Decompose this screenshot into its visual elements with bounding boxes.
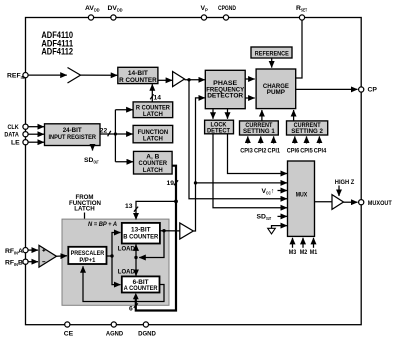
svg-text:RSET: RSET [296,5,307,13]
wire CPI1 [273,136,275,143]
wire current setting 2 to charge pump [293,110,295,121]
RF buffer minus mark [42,261,45,263]
pin REFIN [7,73,28,81]
svg-text:SETTING 1: SETTING 1 [243,128,275,135]
wire lock detect to MUX input 1 [228,134,288,174]
wire RFINA to RF buffer [28,249,38,251]
pin AGND [106,322,123,337]
svg-text:LOAD: LOAD [118,268,135,275]
svg-text:CP: CP [368,87,378,94]
svg-text:REFIN: REFIN [7,73,25,81]
wire RF buffer to prescaler [57,255,68,257]
svg-text:DGND: DGND [138,330,156,337]
wire current setting 1 to charge pump [261,110,263,121]
junction R output tap [187,78,190,81]
svg-text:M1: M1 [310,249,318,256]
N output buffer [180,223,194,239]
wire CLK to register [28,126,44,128]
svg-text:DVDD: DVDD [108,5,123,13]
wire to A,B counter latch [115,161,133,163]
block 14-BIT R COUNTER [118,67,158,84]
wire PFD to lock detect right [227,109,229,119]
N divider gray box [62,219,169,305]
wire PFD to charge pump down [245,97,255,99]
wire VCC to MUX [278,190,288,192]
wire CPI5 [306,136,308,143]
junction 19 bus [174,200,178,204]
wire to B counter [112,233,121,257]
svg-text:CPI6: CPI6 [287,148,300,155]
wire MUX to output buffer [315,201,333,203]
wire prescaler out junction [107,255,113,257]
MUXOUT buffer [332,195,344,210]
svg-text:DETECTOR: DETECTOR [207,92,243,99]
junction B counter out [162,229,165,232]
wire to R counter latch [115,109,132,111]
svg-text:CPI5: CPI5 [300,148,313,155]
block CURRENT SETTING 1 [240,121,279,135]
svg-text:AVDD: AVDD [85,5,100,13]
svg-text:DETECT: DETECT [207,128,231,135]
svg-text:CLK: CLK [8,124,19,131]
RF buffer plus mark [42,249,45,252]
block FUNCTION LATCH [133,125,173,142]
svg-text:CPI2: CPI2 [254,148,267,155]
svg-text:14: 14 [154,94,162,101]
chip outer border [26,18,362,325]
pin LE [11,140,28,147]
svg-text:A COUNTER: A COUNTER [124,285,158,292]
svg-text:CPI3: CPI3 [240,148,253,155]
wire load feedback down [139,231,164,258]
svg-text:RFINA: RFINA [5,248,23,256]
svg-text:INPUT REGISTER: INPUT REGISTER [48,134,96,141]
pin CPGND [218,5,236,20]
wire ground to MUX [272,226,288,229]
ground symbol [268,228,276,234]
junction prescaler out [110,254,113,257]
svg-text:RFINB: RFINB [5,259,23,267]
svg-text:R COUNTER: R COUNTER [119,77,157,84]
svg-text:SETTING 2: SETTING 2 [291,128,323,135]
wire REFIN to input buffer [28,74,67,76]
svg-text:LATCH: LATCH [143,167,163,174]
wire to A counter [112,256,121,285]
block CHARGE PUMP [256,69,296,109]
block REFERENCE [251,47,292,58]
wire M1 [313,238,315,248]
wire buffer to R counter [81,74,118,76]
svg-text:VCC↑: VCC↑ [262,188,275,196]
wire PFD to lock detect left [212,109,214,119]
pin RFINB [5,259,28,267]
svg-text:LATCH: LATCH [74,206,95,213]
wire buffer to MUXOUT pin [344,201,358,203]
wire A,B latch 19 bus [136,166,176,311]
pin DGND [138,322,156,337]
wire function latch to prescaler [84,213,86,246]
pin RFINA [5,248,28,256]
label FROM FUNCTION LATCH [69,194,101,213]
wire load to B counter [135,244,137,257]
wire buffer to PFD input 1 [185,79,205,81]
wire M3 [292,238,294,248]
REFIN buffer chevron [68,68,81,84]
pin CP [359,87,378,94]
svg-text:SDOUT: SDOUT [257,214,272,222]
svg-text:MUXOUT: MUXOUT [368,200,393,207]
pin RSET [296,5,307,20]
svg-text:REFERENCE: REFERENCE [255,51,289,58]
wire N buffer up to PFD input 2 [193,98,205,231]
svg-text:VP: VP [201,5,209,13]
wire SDOUT to MUX [278,215,288,217]
wire RFINB to RF buffer [28,261,38,263]
pin CE [64,322,74,337]
svg-text:13: 13 [125,203,133,210]
wire 13 bus to B counter [136,201,176,219]
svg-text:DATA: DATA [4,131,18,138]
wire CPI2 [260,136,262,143]
arrowhead 6 bus into A counter [133,293,139,299]
wire DATA to register [28,133,44,135]
wire REFERENCE to charge pump [271,58,273,68]
svg-text:PRESCALER: PRESCALER [71,250,105,257]
svg-text:MUX: MUX [296,192,308,199]
wire N output to MUX [196,182,288,184]
wire R output down to MUX [189,80,287,199]
wire charge pump to CP pin [296,88,358,90]
svg-text:22: 22 [100,128,108,135]
junction bus [114,132,117,135]
bus slash 14 [150,94,153,99]
buffer after R counter [173,72,185,87]
svg-text:HIGH Z: HIGH Z [335,179,355,186]
junction N output tap [194,181,197,184]
svg-text:LATCH: LATCH [143,136,163,143]
block PRESCALER P/P+1 [68,247,106,264]
svg-text:M2: M2 [300,249,308,256]
pin DATA [4,131,28,138]
wire R counter latch to R counter, 14 bus [151,84,153,102]
svg-text:CPI4: CPI4 [314,148,327,155]
block CURRENT SETTING 2 [287,121,328,135]
wire B counter out to N buffer [160,230,180,232]
svg-text:CE: CE [64,330,74,337]
svg-text:13-BIT: 13-BIT [131,226,151,233]
bus slash 6 [134,303,138,307]
pin VP [201,5,209,20]
svg-text:PUMP: PUMP [267,89,286,96]
svg-text:6: 6 [129,306,133,313]
svg-text:M3: M3 [289,249,297,256]
wire SDOUT stub from register [92,146,94,151]
junction load line [134,256,137,259]
RF input buffer [39,245,57,267]
wire M2 [302,238,304,248]
block 24-BIT INPUT REGISTER [45,124,101,146]
wire HIGH Z to buffer [338,186,340,197]
block 6-BIT A COUNTER [122,276,160,292]
svg-text:LOAD: LOAD [118,245,135,252]
bus slash 22 [108,131,111,137]
wire LE to register [28,141,44,143]
block 13-BIT B COUNTER [122,223,160,244]
pin DVDD [108,5,123,20]
bus slash 19 [174,180,178,185]
svg-text:AGND: AGND [106,330,123,337]
block R COUNTER LATCH [133,102,173,118]
block A,B COUNTER LATCH [134,151,173,174]
svg-text:14-BIT: 14-BIT [128,70,149,77]
bus slash 13 [134,207,138,212]
wire PFD to charge pump up [245,78,255,80]
svg-text:N = BP + A: N = BP + A [88,221,117,228]
title ADF4110/ADF4111/ADF4112 [41,30,73,57]
wire CPI4 [318,136,320,143]
svg-text:ADF4112: ADF4112 [41,47,73,57]
wire RSET to charge pump [296,20,302,78]
wire R counter to buffer U2 [158,79,172,81]
wire A counter modulus to prescaler [83,266,164,301]
block PHASE FREQUENCY DETECTOR [205,70,245,108]
svg-text:19: 19 [167,180,175,187]
svg-text:SDOUT: SDOUT [84,157,99,165]
wire CPI3 [247,136,249,143]
wire load to A counter [135,258,137,276]
bus vertical to latches [114,110,116,162]
svg-text:B COUNTER: B COUNTER [123,234,158,241]
block LOCK DETECT [205,120,234,134]
svg-text:LE: LE [11,140,20,147]
wire CPI6 [294,136,296,143]
pin AVDD [85,5,100,20]
wire lock detect to MUX input 5 [213,134,287,208]
wire to function latch [115,133,132,135]
block MUX [288,161,315,236]
svg-text:CPGND: CPGND [218,5,236,12]
pin CLK [8,124,29,131]
svg-text:P/P+1: P/P+1 [79,257,95,264]
pin MUXOUT [359,200,393,207]
svg-text:CPI1: CPI1 [268,148,281,155]
svg-text:LATCH: LATCH [143,111,163,118]
wire register bus to latches, 22 [100,133,115,135]
